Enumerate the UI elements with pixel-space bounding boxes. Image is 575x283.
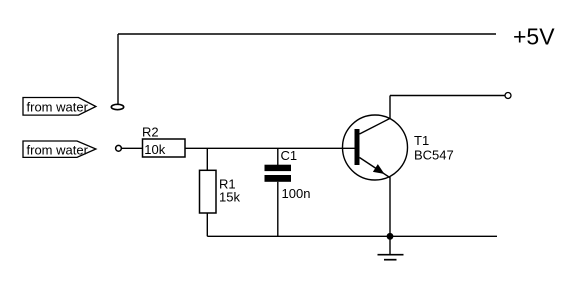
- svg-text:from water: from water: [27, 143, 89, 158]
- svg-text:+5V: +5V: [513, 24, 555, 50]
- svg-text:15k: 15k: [219, 190, 240, 205]
- junction dot emitter/ground: [387, 233, 394, 240]
- wire junction down to R1: [206, 148, 208, 170]
- wire from +5V rail down to upper terminal: [117, 34, 119, 104]
- wire collector to output terminal: [390, 95, 505, 97]
- node from water (upper input flag): [23, 98, 96, 116]
- terminal (output, small circle): [505, 93, 511, 99]
- svg-text:10k: 10k: [144, 142, 165, 157]
- svg-text:100n: 100n: [282, 186, 311, 201]
- node from water (lower input flag): [23, 141, 96, 158]
- terminal (small circle) at lower from-water input: [116, 145, 122, 151]
- wire C1 bottom to ground rail: [277, 182, 279, 237]
- wire emitter down to ground rail: [389, 178, 391, 236]
- label T1 BC547: [414, 133, 454, 163]
- wire +5V rail (top horizontal): [118, 33, 496, 35]
- wire junction down to C1: [277, 148, 279, 165]
- svg-text:from water: from water: [27, 100, 89, 115]
- wire R1 bottom to ground rail: [206, 213, 208, 236]
- svg-text:C1: C1: [281, 148, 298, 163]
- wire terminal to R2: [122, 147, 143, 149]
- terminal (oval) at upper from-water input: [111, 104, 123, 109]
- wire collector up: [389, 96, 391, 119]
- capacitor C1 (100n): [265, 148, 311, 201]
- wire R2 to transistor base: [185, 147, 355, 149]
- svg-text:R2: R2: [142, 125, 159, 140]
- transistor T1 (BC547 NPN): [343, 115, 408, 180]
- wire ground rail (bottom horizontal): [207, 235, 497, 237]
- resistor R1 (15k): [200, 170, 241, 213]
- ground symbol: [378, 236, 404, 259]
- svg-text:BC547: BC547: [414, 148, 454, 163]
- svg-text:T1: T1: [414, 133, 429, 148]
- resistor R2 (10k): [142, 125, 185, 158]
